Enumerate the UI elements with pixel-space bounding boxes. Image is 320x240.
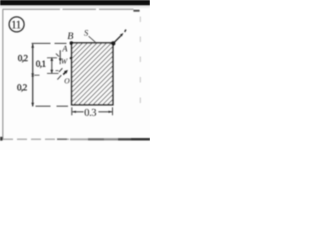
plate (hatched) [72,43,113,105]
corner dot B [70,41,74,45]
label 0.3 [85,109,97,116]
arrow at W [59,50,61,59]
label 0,1 [36,61,45,68]
label W [61,59,67,64]
corner dot top-right [111,41,115,45]
main vertical dimension line [32,44,34,106]
diagonal dash-dot leader to O [57,75,61,79]
mid extension dash [34,74,39,76]
top rule [2,8,133,10]
bottom rule [3,138,70,140]
bottom dimension extension ticks [71,107,73,115]
top black band [0,0,150,6]
label S [84,30,88,36]
extension line at O level [47,72,59,74]
leader from S [89,36,96,42]
small arrow at O point [63,71,66,75]
left border [2,10,4,141]
small diagonal dash above W [56,54,59,57]
label B [67,32,73,39]
bottom extension dash-dot line [36,105,69,107]
bottom dimension line [72,111,83,113]
extension line at W level [47,57,57,59]
badge circle [9,17,24,32]
label A [62,46,68,52]
top arrowhead [31,44,34,48]
mid double arrowhead on main line [31,73,34,77]
label 0,2 top [18,55,27,62]
force arrow at top-right corner [113,30,126,44]
top extension dash-dot line [32,42,67,44]
right dashed border [139,17,141,104]
bottom arrowhead [31,103,34,107]
0,1 dimension line [51,57,53,73]
label O [65,78,70,83]
dot on edge at W level [70,57,72,59]
badge number 11 [12,21,21,29]
label 0,2 bottom [17,84,26,91]
